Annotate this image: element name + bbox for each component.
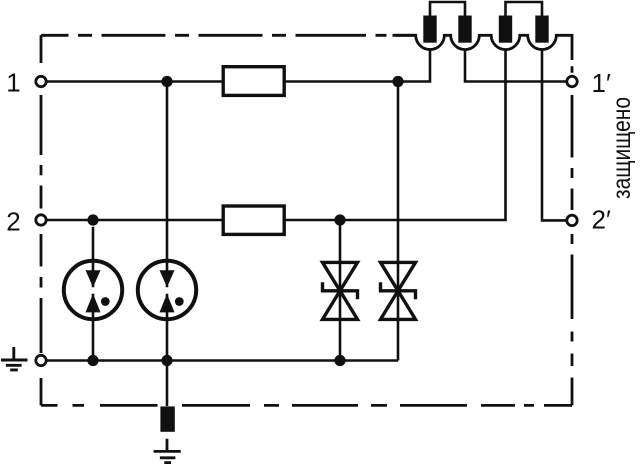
wire line 1: terminal 1 to contact P1 xyxy=(47,50,430,82)
terminal 2' xyxy=(567,215,577,225)
enclosure border top (dash-dot) xyxy=(41,34,416,37)
svg-text:защищено: защищено xyxy=(608,97,636,199)
gas discharge tube F1 xyxy=(64,261,122,319)
wire line 2': contact P4 to terminal 2' xyxy=(542,50,566,221)
gas discharge tube F2 xyxy=(138,261,196,319)
wire ground bus xyxy=(47,359,398,362)
terminal 2 xyxy=(36,215,46,225)
svg-text:2: 2 xyxy=(6,207,20,237)
wire GDT F1 branch (line2 to bus) xyxy=(92,227,95,361)
contact pin P1 xyxy=(423,16,436,43)
svg-text:1: 1 xyxy=(6,67,20,97)
terminal 1' xyxy=(567,76,577,86)
wire TVS D2 branch (line1 to bus end) xyxy=(397,82,400,361)
earth symbol at ground terminal xyxy=(1,347,28,370)
wire line 1': contact P2 to terminal 1' xyxy=(465,50,566,82)
enclosure border left (dash-dot, interrupted by terminals) xyxy=(40,35,43,405)
wire line 2: terminal 2 to contact P3 xyxy=(47,50,505,220)
svg-text:1′: 1′ xyxy=(592,68,611,98)
junction dot bus/TVS D1 xyxy=(334,355,345,366)
resistor R2 xyxy=(223,206,284,234)
junction dot line2/GDT F1 xyxy=(87,214,98,225)
bridge wire P3-P4 xyxy=(506,2,543,16)
junction dot line2/TVS D1 xyxy=(334,214,345,225)
wire TVS D1 branch (line2 to bus) xyxy=(339,220,342,361)
svg-text:2′: 2′ xyxy=(592,205,611,235)
contact pin P4 xyxy=(535,16,548,43)
enclosure border right (dash-dot, interrupted by terminals) xyxy=(571,66,574,405)
bridge wire P1-P2 xyxy=(430,2,465,16)
resistor R1 xyxy=(223,67,284,96)
PE connection bar xyxy=(160,406,174,431)
suppressor diode D2 (bidirectional TVS) xyxy=(381,262,416,319)
earth symbol bottom xyxy=(154,439,181,463)
terminal ground xyxy=(36,355,46,365)
junction dot line1/TVS D2 xyxy=(392,76,403,87)
junction dot bus/GDT F1 xyxy=(87,355,98,366)
contact rail: solid top line with 4 socket arcs, right corner down xyxy=(393,35,573,60)
contact pin P2 xyxy=(458,16,471,43)
junction dot bus/PE lead xyxy=(161,355,172,366)
junction dot line1/GDT F2 xyxy=(161,76,172,87)
enclosure border bottom (dash-dot, interrupted by PE bar) xyxy=(41,404,572,407)
suppressor diode D1 (bidirectional TVS) xyxy=(323,262,358,319)
wire GDT F2 branch (line1 to bus to PE) xyxy=(166,82,169,407)
terminal 1 xyxy=(36,76,46,86)
contact pin P3 xyxy=(499,16,512,43)
